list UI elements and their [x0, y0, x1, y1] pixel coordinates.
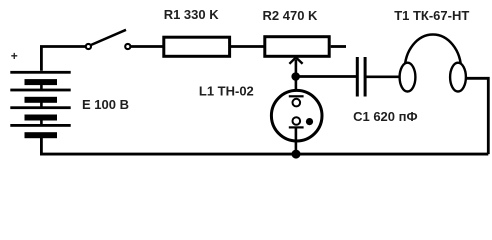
battery E1 long plate 4	[10, 124, 70, 127]
wire R1 to R2	[231, 45, 264, 48]
wire junction to lamp	[295, 77, 298, 97]
wire lamp to bottom rail	[295, 129, 298, 155]
headphones T1 headband	[405, 35, 461, 71]
wire top-left from battery to switch	[41, 47, 85, 71]
svg-text:R2 470 K: R2 470 K	[263, 8, 319, 23]
capacitor C1 right plate	[364, 57, 367, 97]
svg-text:E 100 В: E 100 В	[82, 97, 129, 112]
battery cell connector wire 2	[40, 102, 43, 107]
battery E1 long plate 1	[10, 71, 70, 74]
switch S1 left contact	[86, 44, 91, 49]
label R2 470 K	[263, 8, 319, 23]
label T1 TK-67-NT	[394, 8, 469, 23]
svg-text:+: +	[11, 49, 18, 63]
wire switch to R1	[131, 45, 163, 48]
battery E1 long plate 3	[10, 106, 70, 109]
wire stub right of R2	[331, 45, 346, 48]
bottom rail wire	[40, 153, 488, 156]
label E 100 V	[82, 97, 129, 112]
switch S1 right contact	[125, 44, 130, 49]
svg-text:L1 ТН-02: L1 ТН-02	[199, 84, 254, 99]
resistor R1 body	[164, 37, 230, 56]
battery E1 short plate 2	[25, 97, 58, 103]
svg-text:Т1 ТК-67-НТ: Т1 ТК-67-НТ	[394, 8, 469, 23]
headphones T1 right earpiece	[450, 63, 466, 92]
battery E1 short plate 3	[25, 115, 58, 121]
battery cell connector wire 1	[40, 85, 43, 90]
label L1 TH-02	[199, 84, 254, 99]
battery E1 short plate 1	[25, 79, 58, 85]
label C1 620 pF	[353, 109, 417, 124]
svg-text:C1 620 пФ: C1 620 пФ	[353, 109, 417, 124]
battery cell connector wire 3	[40, 120, 43, 125]
node junction dot at wiper/capacitor	[291, 72, 300, 81]
lamp L1 top electrode	[289, 95, 304, 106]
battery E1 short plate 4	[25, 132, 58, 138]
lamp L1 bottom electrode	[289, 117, 304, 128]
battery plus sign	[11, 49, 18, 63]
node junction dot on bottom rail	[292, 150, 301, 159]
wire junction to capacitor C1	[296, 75, 356, 78]
neon lamp L1 envelope	[271, 90, 322, 141]
resistor R2 body	[265, 37, 329, 57]
headphones T1 left earpiece	[400, 63, 416, 92]
switch S1 blade	[91, 30, 126, 45]
wire right earpiece to right rail	[466, 78, 488, 154]
lamp L1 gas dot	[306, 118, 313, 125]
capacitor C1 left plate	[356, 57, 359, 97]
wire capacitor to headphones	[366, 75, 400, 78]
svg-text:R1 330 K: R1 330 K	[164, 7, 220, 22]
potentiometer R2 wiper arrow	[289, 57, 302, 76]
battery E1 long plate 2	[10, 89, 70, 92]
label R1 330 K	[164, 7, 220, 22]
wire battery negative to bottom rail	[40, 138, 43, 155]
